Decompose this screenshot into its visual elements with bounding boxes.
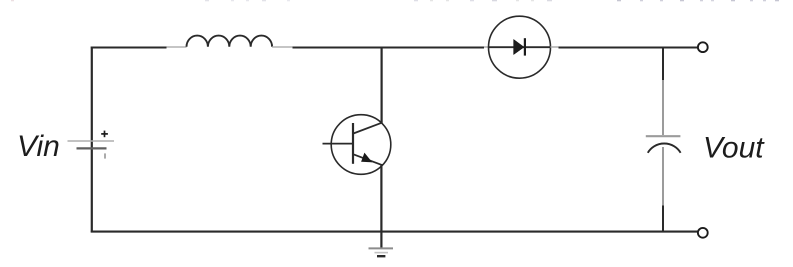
wire: bottom rail xyxy=(91,231,698,233)
inductor L1 xyxy=(187,36,273,47)
diode D1 triangle xyxy=(514,39,524,54)
wire: left branch vertical (Vin) xyxy=(91,47,93,141)
battery V1 negative plate xyxy=(77,147,107,149)
cropped text remnants at top edge xyxy=(11,0,779,1)
wire: capacitor top lead (gray) xyxy=(662,80,664,135)
wire: emitter riser to bottom rail xyxy=(380,164,382,232)
wire: capacitor bottom lead (gray) xyxy=(662,147,664,206)
transistor Q1 emitter arrowhead xyxy=(362,154,371,162)
battery V1 positive plate xyxy=(68,140,115,142)
transistor Q1 emitter diagonal xyxy=(353,154,381,165)
wire: collector riser to top rail xyxy=(381,47,383,124)
wire: through diode circle xyxy=(489,46,551,48)
diode D1 cathode bar xyxy=(524,38,526,55)
battery minus label xyxy=(104,153,106,158)
svg-text:Vin: Vin xyxy=(17,130,60,163)
wire: top rail inductor to diode xyxy=(293,47,485,49)
wire: top rail diode to output terminal xyxy=(559,47,698,49)
wire: ground stub below rail xyxy=(380,232,382,248)
ground xyxy=(369,247,394,249)
capacitor C1 curved plate xyxy=(648,143,681,152)
capacitor C1 top plate xyxy=(646,135,681,137)
wire: capacitor branch to bottom rail (black) xyxy=(662,206,664,233)
svg-text:Vout: Vout xyxy=(703,132,765,165)
wire: capacitor branch from top rail (black) xyxy=(662,47,664,81)
diode D1 circle xyxy=(489,16,551,78)
transistor Q1 circle xyxy=(331,115,391,175)
transistor Q1 base bar xyxy=(352,123,354,164)
terminal: output top xyxy=(698,42,708,52)
wire: inductor right lead (gray) xyxy=(272,46,292,48)
transistor Q1 base lead xyxy=(323,143,353,145)
battery plus label xyxy=(101,131,108,138)
wire: diode left lead (gray) xyxy=(484,46,489,48)
wire: top rail left segment (battery to inductor) xyxy=(91,47,167,49)
wire: inductor left lead (gray) xyxy=(167,46,187,48)
wire: diode right lead (gray) xyxy=(551,46,559,48)
transistor Q1 collector diagonal xyxy=(353,123,382,134)
terminal: output bottom xyxy=(698,228,708,238)
